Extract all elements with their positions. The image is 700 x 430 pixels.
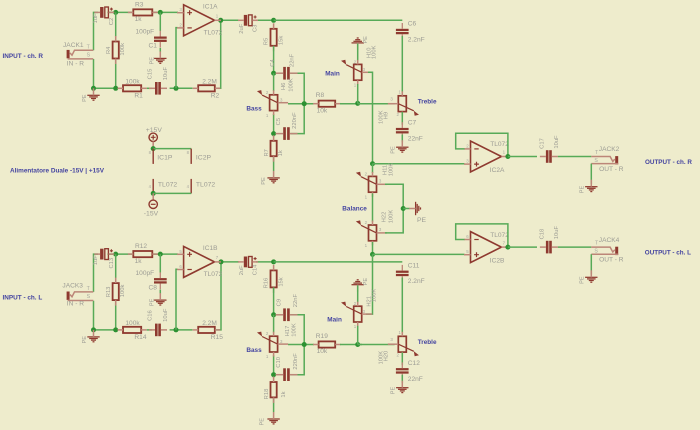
wire: node C down from pot L [273,355,275,378]
wire: balance junction to IC2A +in [373,163,465,165]
node junction feedback bottom L [174,327,179,332]
node junction main pot bottom [355,101,360,106]
wire: C18 to JACK4 [558,246,591,248]
wire: ground to H10 [357,44,359,62]
wire: node A to pot H6 [273,73,275,91]
svg-text:22nF: 22nF [408,376,423,383]
svg-text:IC1A: IC1A [203,3,218,10]
svg-text:R3: R3 [135,1,144,8]
svg-text:C18: C18 [540,229,546,240]
svg-text:OUT - R: OUT - R [599,257,624,264]
ground PE below R7 [267,177,279,179]
svg-text:H6: H6 [281,83,287,90]
wire: top rail to C6 [274,19,403,21]
svg-text:PE: PE [579,276,585,284]
wire: R2 to output riser [215,20,221,88]
wire: JACK4 sleeve to ground [590,254,592,274]
svg-text:H11: H11 [383,165,389,175]
svg-text:C17: C17 [540,138,546,149]
svg-text:Treble: Treble [418,99,437,106]
wire: main junction to treble wiper L [358,344,395,346]
svg-text:S: S [87,294,91,300]
svg-text:100K: 100K [292,323,298,337]
resistor R1 [123,85,141,91]
capacitor C15 [155,82,158,95]
node: input top wire net (ch L) [94,254,99,292]
svg-text:100k: 100k [120,43,126,56]
wire: JACK3 sleeve to ground rail [93,301,95,330]
ground PE right of balance [415,202,417,215]
resistor R4 [113,42,119,59]
jack JACK4 [615,247,618,255]
capacitor C17 [546,150,549,163]
svg-text:R12: R12 [135,243,147,250]
wire: R5 to bass node A [273,46,275,73]
svg-text:JACK2: JACK2 [599,146,620,153]
svg-text:IC2B: IC2B [490,257,505,264]
svg-text:C12: C12 [408,360,420,367]
wire: ground to H21 [357,285,359,303]
wire: rail L to C11 [274,261,403,263]
potentiometer H20 (Treble L) [398,336,406,352]
node junction balance wiper rail [401,206,406,211]
svg-text:10uF: 10uF [163,67,169,81]
svg-text:R18: R18 [264,389,270,400]
svg-text:100K: 100K [379,351,385,365]
svg-text:PE: PE [363,36,369,44]
node junction at C8 top [158,252,163,257]
node junction bass node A [271,71,276,76]
svg-text:100k: 100k [125,320,140,327]
ground PE below R18 [267,418,279,420]
svg-text:1uF: 1uF [93,255,99,265]
svg-text:JACK4: JACK4 [599,237,620,244]
svg-text:C5: C5 [276,118,282,125]
wire: H20 to C12 [401,353,403,366]
svg-text:C15: C15 [147,69,153,80]
wire: H9 to C7 [401,112,403,125]
svg-text:C6: C6 [408,21,417,28]
svg-text:IC1B: IC1B [203,245,218,252]
svg-text:100k: 100k [120,285,126,298]
svg-text:100K: 100K [371,289,377,303]
supply +15V [149,133,157,141]
wire: R18 to ground [273,398,275,413]
svg-text:+15V: +15V [146,127,163,134]
wire: jack sleeve to ground rail [93,59,95,88]
potentiometer H21 (Main L) [354,306,362,322]
node junction IC2A output [505,154,510,159]
wire: node A to pot H17 [273,315,275,333]
wire: IC1B output net to C14 [221,261,239,263]
wire: C8 junction down to C8 [159,254,161,273]
wire: ground rail to R14 [94,329,118,331]
svg-text:PE: PE [261,177,267,185]
svg-text:PE: PE [363,278,369,286]
svg-text:15k: 15k [279,277,285,286]
ground PE below JACK3 [87,336,99,338]
capacitor C13 [100,249,103,260]
svg-text:Main: Main [327,316,342,323]
wire: C11 down to H20 [401,278,403,334]
node junction R13 at rail [113,327,118,332]
node junction bass wiper [302,101,307,106]
node junction V+ rail [151,146,156,151]
power pin IC1P V- [152,179,154,194]
svg-text:JACK1: JACK1 [63,42,84,49]
ground PE below JACK2 [585,186,597,188]
op-amp IC1B [184,246,215,277]
op-amp IC2A [471,141,502,172]
wire: JACK2 sleeve to ground [590,164,592,184]
svg-text:PE: PE [149,57,155,65]
resistor R16 [271,270,277,287]
node junction bass node A L [271,312,276,317]
jack JACK1 [67,50,70,58]
wire: bass wiper L to junction [288,344,314,346]
wire: IC2A output to C17 [508,156,537,158]
svg-text:1k: 1k [135,16,143,23]
svg-text:R1: R1 [134,93,143,100]
node junction bass node C L [271,372,276,377]
node junction bass wiper L [302,342,307,347]
svg-text:1uF: 1uF [93,13,99,23]
svg-text:Treble: Treble [418,339,437,346]
svg-text:S: S [594,249,598,255]
wire: R3 to IC1A +in, junction over C1 [153,11,178,13]
svg-text:IC1P: IC1P [157,155,173,162]
svg-text:S: S [594,158,598,164]
wire: C2 to R3 with junction [108,11,134,13]
svg-text:22nF: 22nF [293,294,299,308]
svg-text:100K: 100K [371,45,377,59]
svg-text:PE: PE [417,217,427,224]
capacitor C3 [244,15,247,26]
capacitor C14 [244,257,247,268]
wire: V- to -15V [152,193,154,200]
svg-text:R19: R19 [316,333,328,340]
wire: R7 to ground [273,156,275,171]
node junction top rail at R5 [271,18,276,23]
supply -15V [149,200,157,208]
svg-text:2.2M: 2.2M [202,79,217,86]
svg-text:C11: C11 [408,262,420,269]
node junction IC1B output [219,259,224,264]
svg-text:OUTPUT - ch. R: OUTPUT - ch. R [645,159,692,166]
wire: C15 to R2 junction [170,87,193,89]
svg-text:PE: PE [82,94,88,102]
node junction R4 at rail [113,86,118,91]
svg-text:Alimentatore Duale -15V | +15V: Alimentatore Duale -15V | +15V [10,167,105,174]
svg-text:PE: PE [390,146,396,154]
svg-text:100K: 100K [379,110,385,124]
wire: node C down from pot [273,114,275,137]
wire: C1 junction down to C1 [159,12,161,31]
wire: V+ rail [153,148,191,150]
svg-text:IC2P: IC2P [196,155,212,162]
svg-text:10k: 10k [317,348,328,355]
capacitor C7 [396,128,409,130]
node junction balance to IC2B [370,252,375,257]
wire: +15V to power pins [152,142,154,147]
ground PE below C1 [154,57,166,59]
svg-text:C9: C9 [276,299,282,306]
node junction rail L at R16 [271,259,276,264]
wire: R16 to bass node A L [273,287,275,314]
jack JACK3 [67,292,70,300]
wire: junction to PE ground [403,208,409,210]
svg-text:IC2A: IC2A [490,167,505,174]
wire: IC2B output to C18 [508,246,537,248]
svg-text:2.2M: 2.2M [202,320,217,327]
svg-text:Bass: Bass [246,106,262,113]
potentiometer H9 (Treble) [398,96,406,112]
wire: H11 to H22 [372,194,374,222]
svg-text:TL072: TL072 [490,232,509,239]
ground PE below C8 [154,299,166,301]
svg-text:OUTPUT - ch. L: OUTPUT - ch. L [645,250,691,257]
svg-text:R7: R7 [264,149,270,156]
wire: R12 to IC1B +in [153,253,178,255]
svg-text:INPUT - ch. R: INPUT - ch. R [3,53,44,60]
svg-text:H17: H17 [285,326,291,337]
svg-text:100pF: 100pF [136,29,155,36]
svg-text:Balance: Balance [342,206,367,213]
svg-text:TL072: TL072 [204,271,223,278]
ground PE below JACK1 [87,94,99,96]
svg-text:IN - R: IN - R [67,61,84,68]
wire: C7 to ground [401,135,403,143]
ground PE below JACK4 [585,276,597,278]
ground PE above H21 [352,284,364,286]
wire: feedback vertical to IC1A -in [176,28,178,89]
svg-text:C3: C3 [252,25,258,32]
svg-text:10uF: 10uF [163,308,169,322]
resistor R3 [133,9,152,15]
capacitor C10 [283,368,286,381]
svg-text:R2: R2 [211,93,220,100]
svg-text:220nF: 220nF [292,112,298,129]
svg-text:C2: C2 [109,18,115,25]
node junction IC2B output [505,245,510,250]
wire: C13 to R12 [108,253,134,255]
resistor R15 [198,327,215,333]
svg-text:C4: C4 [270,59,276,67]
resistor R2 [198,85,215,91]
svg-text:1k: 1k [278,150,284,156]
power pin IC1P V+ [152,149,154,164]
node junction IC1A output [218,18,223,23]
wire: R14 to C16 [147,329,152,331]
wire: IC2A feedback loop [456,133,508,156]
svg-text:2uF: 2uF [239,23,245,33]
svg-text:1k: 1k [135,258,143,265]
node junction ground rail / R4 [91,86,96,91]
wire: balance junction to IC2B +in [373,253,465,255]
wire: bass wiper to junction [288,103,314,105]
svg-text:100K: 100K [388,210,394,224]
svg-text:OUT - R: OUT - R [599,166,624,173]
svg-text:TL072: TL072 [490,141,509,148]
svg-text:C14: C14 [252,264,258,275]
svg-text:PE: PE [82,336,88,344]
wire: junction down to H21 wiper [366,254,373,314]
svg-text:IN - R: IN - R [67,301,84,308]
node junction bass node C [271,131,276,136]
svg-text:10uF: 10uF [554,135,560,149]
wire: C12 to ground [401,375,403,383]
potentiometer H11 (Balance upper) [369,176,377,192]
resistor R8 [319,101,336,107]
wire: H10 bottom to rail [357,84,359,104]
svg-text:220nF: 220nF [293,353,299,370]
wire: main junction to treble wiper [358,103,395,105]
potentiometer H17 (Bass L) [270,336,278,352]
wire: C10 right to bass right rail L [291,345,305,375]
op-amp IC2B [471,232,502,263]
svg-text:R13: R13 [106,287,112,298]
svg-text:TL072: TL072 [196,182,215,189]
svg-text:PE: PE [390,387,396,395]
resistor R7 [271,141,277,156]
svg-text:C8: C8 [149,284,158,291]
svg-text:JACK3: JACK3 [62,283,83,290]
wire: C17 to JACK2 [558,156,591,158]
capacitor C6 [396,29,409,31]
node junction balance to IC2A [370,161,375,166]
wire: C4 right to bass right rail [291,73,305,104]
capacitor C8 [154,278,167,280]
svg-text:PE: PE [579,186,585,194]
resistor R19 [319,341,336,347]
svg-text:100pF: 100pF [136,270,155,277]
wire: R19 to main junction L [340,344,362,346]
power pin IC2P V- [190,179,192,194]
svg-text:22nF: 22nF [289,53,295,67]
wire: R15 to output riser [215,262,222,330]
wire: C6 down to H9 [401,36,403,93]
svg-text:C13: C13 [109,258,115,269]
svg-text:100K: 100K [389,163,395,177]
svg-text:-15V: -15V [144,210,159,217]
svg-text:R15: R15 [211,334,223,341]
svg-text:100k: 100k [125,78,140,85]
node junction feedback bottom [174,86,179,91]
svg-text:R8: R8 [316,92,325,99]
wire: R13 bottom to rail [115,301,117,330]
wire: V- rail [153,192,191,194]
wire: R4 bottom to ground rail [115,59,117,89]
svg-text:R16: R16 [263,278,269,289]
wire: C14 to rail L [256,261,274,263]
ground PE below C7 [396,146,408,148]
wire: C8 to ground [159,290,161,294]
capacitor C9 [283,308,286,321]
wire: R4 top from junction [115,12,117,36]
node: input top wire net (ch R) [94,12,99,50]
jack JACK2 [615,156,618,164]
wire: H22 bottom to IC2B rail junction [372,242,374,254]
svg-text:22nF: 22nF [408,135,423,142]
capacitor C5 [283,127,286,140]
ground PE above H10 [352,42,364,44]
svg-text:C10: C10 [276,357,282,368]
svg-text:10uF: 10uF [554,226,560,240]
resistor R18 [271,382,277,397]
wire: R8 to main junction [340,103,362,105]
svg-text:S: S [87,53,91,59]
svg-text:INPUT - ch. L: INPUT - ch. L [3,295,43,302]
capacitor C11 [396,271,409,273]
wire: C1 to ground [159,48,161,52]
wire: C5 right to bass right rail [291,104,305,134]
resistor R14 [123,327,141,333]
svg-text:Main: Main [325,70,340,77]
node junction main pot bottom L [355,342,360,347]
capacitor C1 [154,37,167,39]
svg-text:Bass: Bass [246,347,262,354]
resistor R5 [271,29,277,46]
wire: ground rail to R1 [94,87,118,89]
svg-text:R5: R5 [263,38,269,45]
wire: C9 right to bass right rail L [291,315,305,345]
node junction after C13 [113,252,118,257]
capacitor C2 [100,7,103,18]
wire: IC1A output net to C3 [221,19,239,21]
wire: R13 top from junction [115,254,117,278]
wire: H10 wiper to balance riser [368,72,373,163]
svg-text:PE: PE [259,418,265,426]
svg-text:C16: C16 [147,310,153,321]
wire: feedback vertical to IC1B -in [176,269,178,330]
ground PE below C12 [396,387,408,389]
svg-text:TL072: TL072 [204,30,223,37]
wire: R1 to C15 [147,87,152,89]
svg-text:10k: 10k [317,107,328,114]
node junction V- rail [151,191,156,196]
wire: C3 to bass/treble rail [256,19,274,21]
svg-text:H22: H22 [382,212,388,223]
svg-text:TL072: TL072 [158,182,177,189]
op-amp IC1A [184,5,215,36]
capacitor C12 [396,368,409,370]
svg-text:100K: 100K [288,78,294,92]
svg-text:2uF: 2uF [239,265,245,275]
wire: junction down to H11 [372,164,374,173]
wire: wipers rail right of balance pots [385,184,403,233]
potentiometer H6 (Bass) [270,95,278,111]
node junction at C1 top [158,10,163,15]
node junction ground rail / R13 [91,327,96,332]
svg-text:2.2nF: 2.2nF [408,278,425,285]
svg-text:R14: R14 [134,334,146,341]
resistor R12 [133,251,152,257]
potentiometer H22 (Balance lower) [369,225,377,241]
node junction after C2 [113,10,118,15]
svg-text:15k: 15k [279,36,285,45]
svg-text:PE: PE [149,298,155,306]
resistor R13 [113,283,119,300]
capacitor C4 [283,67,286,80]
capacitor C16 [155,324,158,337]
wire: C16 to R15 junction [170,329,193,331]
wire: H21 bottom to rail L [357,326,359,345]
potentiometer H10 (Main) [354,64,362,80]
power pin IC2P V+ [190,149,192,164]
svg-text:C1: C1 [149,43,158,50]
svg-text:C7: C7 [408,119,417,126]
svg-text:2.2nF: 2.2nF [408,36,425,43]
